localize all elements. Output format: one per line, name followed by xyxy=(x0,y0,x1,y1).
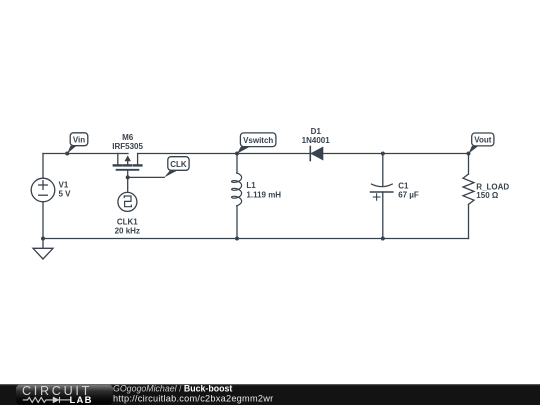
wire xyxy=(43,153,128,155)
svg-text:Vin: Vin xyxy=(73,136,85,145)
svg-text:LAB: LAB xyxy=(70,394,93,405)
svg-text:5 V: 5 V xyxy=(59,189,72,198)
node CLK junction xyxy=(126,175,130,179)
svg-text:150 Ω: 150 Ω xyxy=(476,191,499,200)
CircuitLab logo resistor-diode glyph xyxy=(23,397,70,403)
label R_LOAD value xyxy=(476,182,509,200)
node Vin junction xyxy=(65,152,69,156)
svg-text:CLK1: CLK1 xyxy=(117,217,138,226)
label V1 value xyxy=(59,180,72,198)
svg-text:IRF5305: IRF5305 xyxy=(112,142,143,151)
node flag Vin xyxy=(67,133,88,154)
wire xyxy=(127,170,129,193)
svg-text:http://circuitlab.com/c2bxa2eg: http://circuitlab.com/c2bxa2egmm2wr xyxy=(113,394,273,404)
svg-text:1.119 mH: 1.119 mH xyxy=(246,190,281,199)
node flag Vswitch xyxy=(237,133,276,154)
svg-text:D1: D1 xyxy=(311,127,322,136)
label CLK1 value xyxy=(115,217,140,235)
svg-text:V1: V1 xyxy=(59,180,69,189)
inductor L1 xyxy=(232,154,242,239)
svg-text:67 µF: 67 µF xyxy=(398,190,419,199)
wire xyxy=(128,176,165,178)
wire xyxy=(42,154,44,179)
node C1 bottom junction xyxy=(381,237,385,241)
svg-text:20 kHz: 20 kHz xyxy=(115,227,140,236)
svg-text:CLK: CLK xyxy=(170,160,187,169)
node L1 bottom junction xyxy=(235,237,239,241)
node Vswitch junction xyxy=(235,152,239,156)
wire xyxy=(138,153,469,155)
svg-text:L1: L1 xyxy=(246,181,256,190)
svg-text:Vout: Vout xyxy=(474,136,492,145)
svg-text:M6: M6 xyxy=(122,133,134,142)
svg-text:Vswitch: Vswitch xyxy=(243,136,273,145)
wire xyxy=(42,202,44,239)
resistor R_LOAD xyxy=(463,154,474,239)
voltage source CLK1 xyxy=(118,192,137,211)
label L1 value xyxy=(246,181,281,199)
capacitor C1 xyxy=(371,154,393,239)
voltage source V1 xyxy=(31,178,55,202)
node Vout junction xyxy=(467,152,471,156)
svg-text:1N4001: 1N4001 xyxy=(302,136,331,145)
label D1 value xyxy=(302,127,331,145)
label M6 value xyxy=(112,133,143,151)
label C1 value xyxy=(398,181,419,199)
footer bar xyxy=(0,384,540,405)
diode D1 xyxy=(310,147,323,161)
node C1 top junction xyxy=(381,152,385,156)
transistor M6 xyxy=(114,154,142,170)
svg-text:C1: C1 xyxy=(398,181,409,190)
node flag CLK xyxy=(164,157,189,178)
ground xyxy=(33,239,53,260)
node ground junction xyxy=(41,237,45,241)
node flag Vout xyxy=(469,133,494,154)
wire xyxy=(43,238,469,240)
svg-text:GOgogoMichael / Buck-boost: GOgogoMichael / Buck-boost xyxy=(113,384,232,394)
